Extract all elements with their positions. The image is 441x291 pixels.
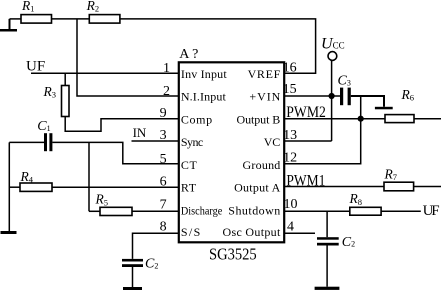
wire R3 bottom to pin9 (Comp) <box>65 117 179 132</box>
wire branch to R5 <box>89 210 100 212</box>
svg-text:S/S: S/S <box>181 225 200 239</box>
wire R6 to edge <box>414 118 441 120</box>
ground (below C2 right) <box>315 287 340 290</box>
svg-text:10: 10 <box>284 197 298 212</box>
wire pin8 (S/S) to C2 <box>133 233 179 259</box>
resistor R3 <box>62 73 70 116</box>
svg-text:Sync: Sync <box>181 135 203 149</box>
svg-text:4: 4 <box>287 220 294 235</box>
svg-text:Inv Input: Inv Input <box>181 67 227 81</box>
resistor R8 <box>350 207 381 215</box>
node junction dot pin15/Ucc <box>329 93 335 99</box>
wire R1 to R2 <box>52 18 90 20</box>
wire UF to pin1 (Inv Input) <box>31 72 179 74</box>
wire left rail to C1 <box>9 142 44 231</box>
svg-text:SG3525: SG3525 <box>209 244 257 263</box>
pin labels left column <box>181 67 227 239</box>
wire pin10 (Shutdown) to R8 <box>284 210 350 212</box>
wire C1 to pin5 (CT) <box>52 142 178 163</box>
wire C1 line down to R5 <box>88 142 90 211</box>
IC U1 SG3525 box <box>179 62 284 242</box>
wire Output A (PWM1) to R7 <box>284 186 384 188</box>
ground (left rail) <box>1 231 17 234</box>
svg-text:3: 3 <box>160 128 167 143</box>
resistor R7 <box>384 182 414 191</box>
wire rail to R4 <box>9 186 20 188</box>
pin labels right column <box>223 67 281 239</box>
ground (right of C3) <box>375 107 393 110</box>
svg-text:Output A: Output A <box>234 181 281 195</box>
svg-text:5: 5 <box>160 152 167 167</box>
power Ucc terminal <box>328 52 337 141</box>
wire pin13 (VC) to Ucc rail <box>284 140 331 142</box>
svg-text:6: 6 <box>160 175 167 190</box>
wire R8 to UF <box>381 210 421 212</box>
resistor R6 <box>385 115 414 123</box>
svg-text:+VIN: +VIN <box>249 90 280 104</box>
wire pin15 (+VIN) to C3 <box>284 95 340 97</box>
svg-text:Discharge: Discharge <box>181 203 222 217</box>
svg-text:Comp: Comp <box>181 112 212 126</box>
svg-text:UF: UF <box>423 203 440 219</box>
node junction dot PWM2 <box>358 116 364 122</box>
capacitor C2 (left) <box>122 259 143 267</box>
svg-text:15: 15 <box>283 82 297 97</box>
capacitor C2 (right) <box>317 237 339 245</box>
wire R4 to pin6 (RT) <box>52 186 179 188</box>
resistor R1 <box>21 15 52 24</box>
wire R5 to pin7 (Discharge) <box>132 210 179 212</box>
wire C2 right to ground <box>326 246 328 287</box>
wire Output B (PWM2) to R6 <box>284 118 385 120</box>
wire R2 to VREF pin16 <box>120 19 316 73</box>
capacitor C1 <box>44 133 52 151</box>
wire left step to R1 <box>0 19 21 32</box>
svg-text:A ?: A ? <box>179 47 198 62</box>
svg-text:CT: CT <box>181 158 198 172</box>
capacitor C3 <box>340 88 351 106</box>
svg-text:Shutdown: Shutdown <box>228 203 280 217</box>
ground (below C2 left) <box>123 287 142 290</box>
wire R1R2 junction down to pin2 (N.I.Input) <box>77 19 179 96</box>
svg-text:2: 2 <box>163 84 170 99</box>
wire R7 to edge <box>414 186 441 188</box>
resistor R5 <box>100 207 132 215</box>
resistor R2 <box>89 15 120 24</box>
svg-text:7: 7 <box>160 197 167 212</box>
wire C2 to ground <box>132 267 134 287</box>
svg-text:1: 1 <box>163 61 170 76</box>
svg-text:Ground: Ground <box>243 158 281 172</box>
svg-text:VC: VC <box>264 135 281 149</box>
svg-text:9: 9 <box>160 106 167 121</box>
svg-text:RT: RT <box>181 181 197 195</box>
svg-text:16: 16 <box>283 61 297 76</box>
wire shutdown line down to C2 right <box>326 211 328 237</box>
svg-text:N.I.Input: N.I.Input <box>181 90 227 104</box>
wire pin4 (Osc Output) stub <box>284 232 315 234</box>
svg-text:VREF: VREF <box>248 67 281 81</box>
wire pin12 (Ground) riser <box>284 96 361 164</box>
svg-text:UF: UF <box>26 59 45 75</box>
svg-text:Output B: Output B <box>237 112 281 126</box>
svg-text:8: 8 <box>160 220 167 235</box>
resistor R4 <box>20 183 52 191</box>
svg-text:Osc Output: Osc Output <box>223 225 281 239</box>
wire IN to pin3 (Sync) <box>132 140 179 142</box>
wire C3 to ground <box>351 96 384 107</box>
svg-text:IN: IN <box>133 125 147 140</box>
